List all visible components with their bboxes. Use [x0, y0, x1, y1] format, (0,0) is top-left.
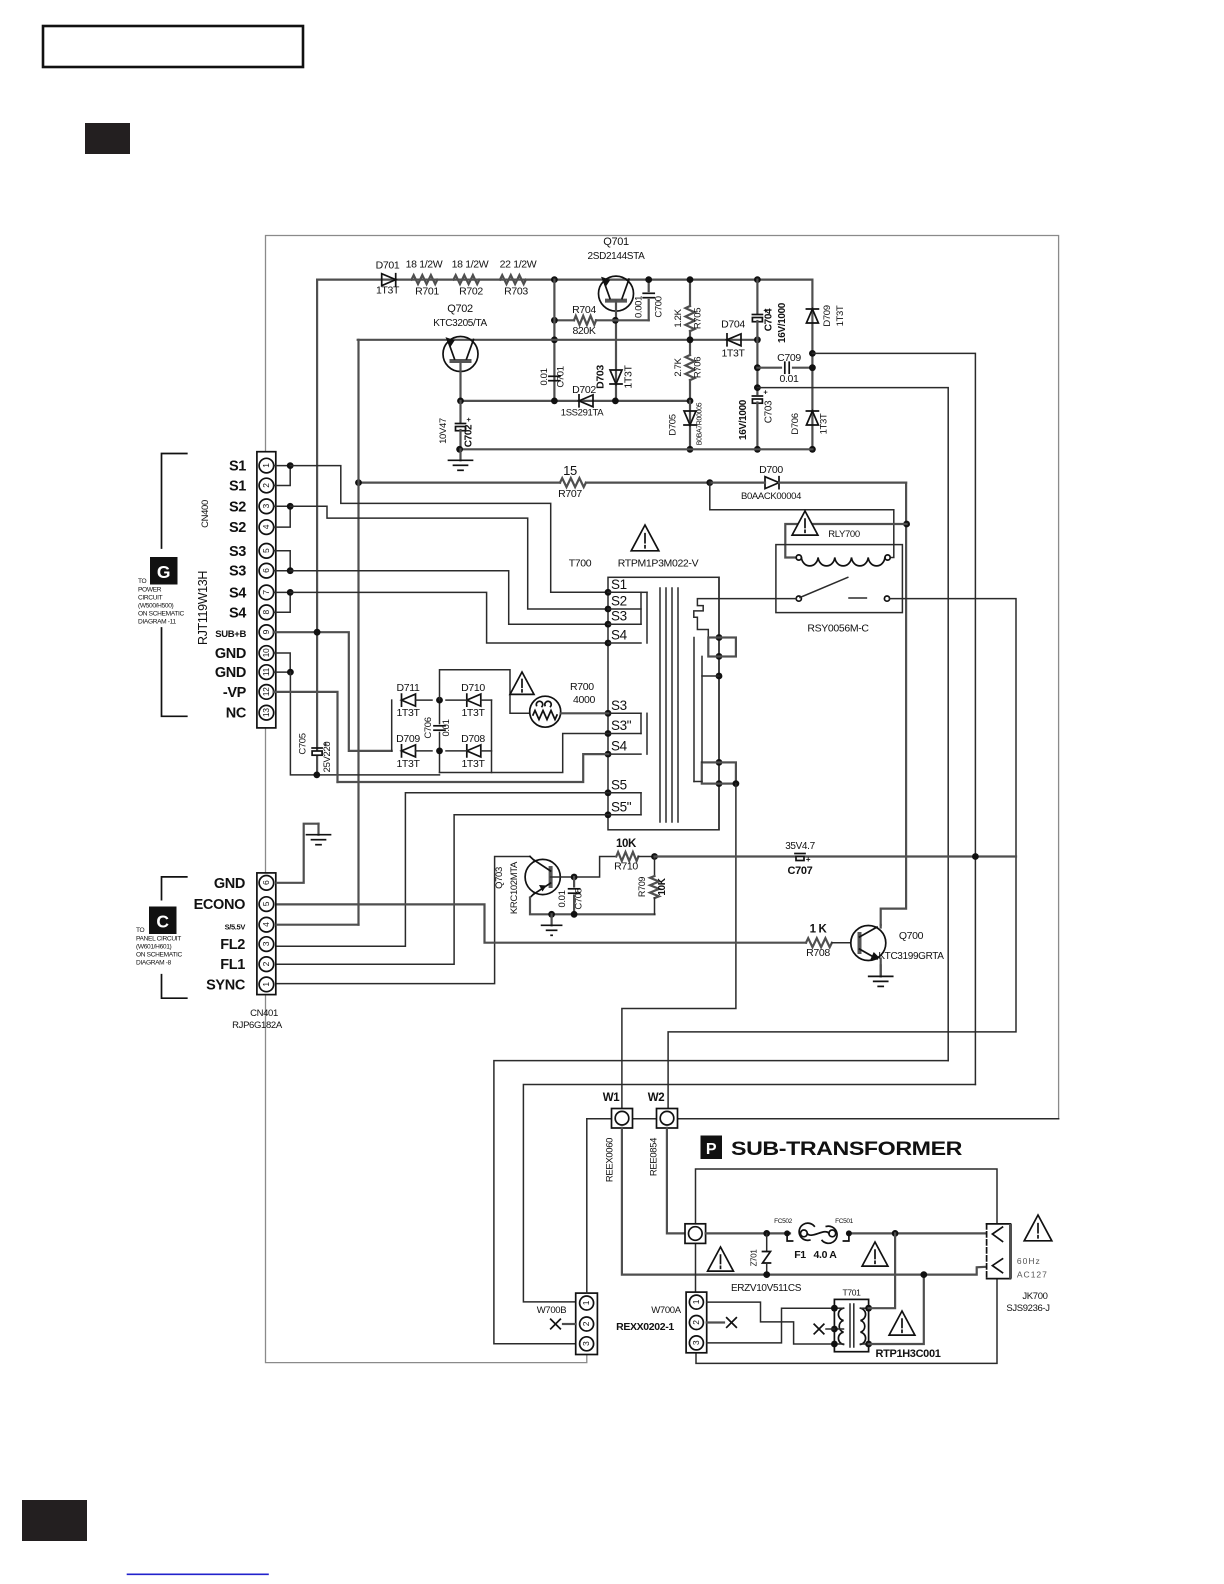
diode D709 bridge — [402, 745, 416, 757]
svg-text:RTP1H3C001: RTP1H3C001 — [876, 1348, 941, 1360]
svg-text:1T3T: 1T3T — [376, 285, 400, 297]
svg-text:REXX0202-1: REXX0202-1 — [616, 1321, 674, 1333]
CN400 pin 3 S2 — [259, 499, 274, 514]
ground symbol main — [459, 449, 461, 460]
CN401 pin 1 SYNC — [259, 977, 274, 992]
svg-text:D705: D705 — [668, 414, 679, 435]
T700 secondary inner lines — [693, 638, 695, 782]
wire Q703 collector to SYNC — [277, 857, 531, 984]
svg-text:S3: S3 — [229, 544, 246, 560]
svg-text:D710: D710 — [461, 682, 485, 694]
svg-text:9: 9 — [261, 629, 271, 634]
wire -VP pin 12 to S4 staircase — [274, 692, 338, 782]
CN401 pin 5 ECONO — [259, 897, 274, 912]
svg-text:W1: W1 — [603, 1092, 621, 1104]
wire S55V pin4 — [277, 924, 359, 926]
svg-text:R701: R701 — [415, 286, 439, 298]
svg-text:D709: D709 — [396, 733, 420, 745]
resistor R708 — [806, 938, 832, 947]
svg-text:RJP6G182A: RJP6G182A — [232, 1020, 283, 1031]
capacitor C705 — [312, 747, 322, 749]
wire net S2 to T700 — [290, 506, 608, 609]
svg-text:KRC102MTA: KRC102MTA — [509, 861, 520, 914]
svg-text:S4: S4 — [229, 585, 246, 601]
wire net D709 to W700B pin1 — [523, 1085, 975, 1302]
G section bracket — [162, 454, 187, 549]
svg-text:REEX0060: REEX0060 — [605, 1138, 616, 1182]
svg-text:SYNC: SYNC — [206, 977, 246, 993]
wire R700 to S3 tap — [561, 712, 608, 714]
wire T701 right bottom to AC line — [869, 1275, 924, 1344]
svg-text:D703: D703 — [595, 365, 607, 389]
wire W700A pin3 to T701 — [707, 1308, 835, 1343]
svg-text:1T3T: 1T3T — [396, 758, 420, 770]
resistor R705 — [689, 280, 691, 306]
main border left lower segment — [266, 728, 587, 1363]
wire Q700 emitter — [880, 959, 882, 977]
svg-text:11: 11 — [261, 667, 271, 676]
svg-text:25V220: 25V220 — [322, 742, 333, 773]
svg-text:16V/1000: 16V/1000 — [738, 399, 749, 440]
svg-text:10V47: 10V47 — [438, 418, 449, 444]
wire secondary to W1 — [622, 784, 736, 1109]
svg-text:DIAGRAM -11: DIAGRAM -11 — [138, 619, 176, 626]
wire Q702 base vertical — [459, 361, 461, 401]
svg-text:GND: GND — [215, 646, 246, 662]
resistor R701 — [412, 275, 438, 284]
wire relay switch left to T700 secondary — [694, 599, 796, 638]
svg-text:R706: R706 — [693, 357, 704, 378]
svg-text:15: 15 — [563, 463, 577, 478]
svg-text:R702: R702 — [459, 286, 483, 298]
svg-text:T700: T700 — [569, 558, 592, 570]
svg-text:GND: GND — [214, 876, 245, 892]
transistor Q700 — [851, 926, 886, 961]
wire net S4 to T700 — [290, 592, 608, 643]
wire Q703 emitter down — [530, 898, 655, 915]
diode D702 — [579, 395, 593, 407]
warning triangle relay — [792, 511, 818, 535]
wire D700 to relay right vertical — [881, 483, 906, 925]
svg-text:FC501: FC501 — [835, 1218, 853, 1225]
wire S4 pins 7-8 bracket — [274, 592, 291, 612]
wire W1 down to AC line — [622, 1128, 993, 1275]
resistor R710 — [616, 852, 638, 861]
CN400 pin 10 GND — [259, 646, 274, 661]
svg-text:GND: GND — [215, 665, 246, 681]
svg-text:S4: S4 — [229, 605, 246, 621]
relay coil — [796, 555, 801, 560]
svg-text:C707: C707 — [788, 865, 813, 877]
black label P — [701, 1136, 723, 1160]
black label box top — [85, 123, 130, 154]
wire R707 line — [359, 482, 561, 484]
svg-text:4.0 A: 4.0 A — [814, 1249, 838, 1261]
svg-text:S3": S3" — [611, 718, 632, 733]
wire ECONO from CN401 — [277, 904, 807, 942]
resistor R706 — [689, 340, 691, 355]
wire S1 pins 1-2 bracket — [274, 466, 291, 486]
varistor Z701 — [766, 1233, 768, 1251]
CN401 pin 4 S/5.5V — [259, 917, 274, 932]
bridge left edge — [391, 700, 393, 751]
svg-text:TO: TO — [138, 578, 147, 585]
svg-text:C703: C703 — [764, 400, 775, 423]
svg-text:POWER: POWER — [138, 587, 162, 594]
svg-text:R704: R704 — [572, 304, 596, 316]
svg-text:DIAGRAM -8: DIAGRAM -8 — [136, 960, 172, 967]
CN400 pin 8 S4 — [259, 605, 274, 620]
svg-text:3: 3 — [261, 503, 271, 508]
svg-text:R708: R708 — [806, 947, 830, 959]
resistor R703 — [500, 275, 526, 284]
svg-text:6: 6 — [261, 880, 271, 885]
wire S4 tap2 staircase — [338, 754, 609, 782]
wire bridge top node to R700 — [440, 670, 530, 714]
svg-text:C702: C702 — [464, 424, 475, 447]
CN400 pin 5 S3 — [259, 544, 274, 559]
svg-text:1: 1 — [691, 1299, 701, 1304]
svg-text:ON SCHEMATIC: ON SCHEMATIC — [136, 952, 182, 959]
ground symbol CN401 — [317, 824, 319, 835]
terminal W2 — [657, 1109, 678, 1129]
svg-text:D704: D704 — [721, 319, 745, 331]
svg-text:18 1/2W: 18 1/2W — [452, 259, 489, 271]
wire D702 rail y401 — [461, 400, 691, 402]
svg-text:T701: T701 — [843, 1288, 862, 1298]
wire net S3 to T700 — [290, 571, 608, 625]
svg-text:10: 10 — [261, 648, 271, 657]
svg-text:FL1: FL1 — [220, 957, 245, 973]
wire S5quote to FL1 — [277, 815, 609, 964]
svg-text:TO: TO — [136, 927, 145, 934]
thermistor R700 — [530, 696, 561, 727]
terminal W1 — [612, 1109, 633, 1129]
svg-text:Q703: Q703 — [494, 867, 505, 889]
main circuit border — [266, 236, 1059, 1119]
svg-text:ON SCHEMATIC: ON SCHEMATIC — [138, 611, 184, 618]
svg-text:0.01: 0.01 — [557, 890, 568, 907]
wire SUB+B vertical feed to D701 — [316, 280, 318, 775]
wire W line y1119 — [587, 1118, 1059, 1120]
diode D705 — [689, 401, 691, 449]
black label G — [150, 557, 178, 585]
capacitor C703 — [756, 340, 758, 394]
T700 secondary winding box lower — [702, 762, 736, 783]
transistor Q701 — [599, 276, 634, 311]
svg-text:0.01: 0.01 — [441, 719, 452, 736]
svg-text:3: 3 — [691, 1340, 701, 1345]
warning triangle sub2 — [862, 1242, 888, 1266]
svg-text:R710: R710 — [614, 861, 638, 873]
svg-text:S1: S1 — [229, 479, 246, 495]
wire Q702 collector rail y340 — [358, 339, 758, 341]
diode D708 — [467, 745, 481, 757]
warning triangle JK700 — [1024, 1215, 1052, 1241]
svg-text:F1: F1 — [794, 1249, 806, 1261]
CN400 pin 1 S1 — [259, 458, 274, 473]
svg-text:FC502: FC502 — [774, 1218, 792, 1225]
wire relay coil left feed — [785, 524, 906, 558]
svg-text:35V4.7: 35V4.7 — [785, 841, 815, 852]
svg-text:C: C — [156, 912, 169, 932]
svg-text:0.01: 0.01 — [539, 368, 550, 385]
wire R707 node to relay coil right — [710, 483, 894, 558]
svg-text:Q702: Q702 — [447, 303, 473, 315]
svg-text:SUB-TRANSFORMER: SUB-TRANSFORMER — [731, 1138, 962, 1160]
svg-text:1: 1 — [261, 982, 271, 987]
svg-text:R700: R700 — [570, 681, 594, 693]
warning triangle sub1 — [708, 1247, 734, 1271]
svg-text:KTC3199GRTA: KTC3199GRTA — [878, 951, 944, 962]
T700 primary taps upper — [605, 589, 612, 596]
wire GND pins 10-11 bracket — [274, 653, 291, 672]
svg-text:S1: S1 — [229, 459, 246, 475]
capacitor C704 — [756, 280, 758, 313]
svg-text:KTC3205/TA: KTC3205/TA — [433, 318, 487, 329]
svg-text:D706: D706 — [790, 413, 801, 434]
svg-text:JK700: JK700 — [1022, 1291, 1047, 1302]
wire C703 node to right bus — [757, 388, 948, 1061]
svg-text:(W601/H601): (W601/H601) — [136, 944, 172, 951]
svg-text:820K: 820K — [572, 325, 595, 337]
CN400 pin 7 S4 — [259, 585, 274, 600]
svg-text:C708: C708 — [574, 888, 585, 909]
svg-text:60Hz: 60Hz — [1017, 1256, 1041, 1266]
svg-text:R703: R703 — [504, 286, 528, 298]
svg-text:RSY0056M-C: RSY0056M-C — [807, 623, 869, 635]
svg-text:RLY700: RLY700 — [828, 529, 860, 540]
svg-text:R709: R709 — [637, 877, 647, 897]
wire W700A pin1 to T701 — [707, 1302, 835, 1344]
CN400 pin 9 SUB+B — [259, 625, 274, 640]
svg-text:CN401: CN401 — [250, 1008, 278, 1019]
node C704 top rail — [754, 276, 761, 283]
svg-text:1T3T: 1T3T — [819, 413, 830, 434]
transformer T701 — [834, 1299, 868, 1351]
wire Q700 collector — [880, 925, 882, 928]
wire top rail D701-R703 — [317, 279, 812, 281]
diode D704 — [727, 334, 741, 346]
svg-text:D700: D700 — [759, 464, 783, 476]
svg-text:0.01: 0.01 — [779, 373, 799, 385]
resistor R704 — [554, 319, 574, 321]
T700 secondary bus — [718, 577, 720, 830]
svg-text:NC: NC — [226, 706, 247, 722]
svg-text:+: + — [806, 855, 811, 864]
svg-text:D708: D708 — [461, 733, 485, 745]
wire x554 vertical — [553, 280, 555, 401]
CN400 pin 6 S3 — [259, 563, 274, 578]
bridge right edge — [491, 700, 493, 772]
black label C — [149, 907, 177, 935]
svg-text:7: 7 — [261, 590, 271, 595]
svg-text:1: 1 — [261, 463, 271, 468]
wire bridge bottom to S3 tap2 — [440, 734, 609, 773]
svg-text:S2: S2 — [229, 499, 246, 515]
svg-text:W700B: W700B — [537, 1305, 566, 1316]
diode D703 — [610, 370, 622, 384]
wire GND pin6 to ground symbol — [277, 824, 319, 883]
svg-text:1 K: 1 K — [810, 924, 828, 936]
svg-text:RTPM1P3M022-V: RTPM1P3M022-V — [618, 558, 699, 570]
CN400 pin 2 S1 — [259, 478, 274, 493]
svg-text:8: 8 — [261, 609, 271, 614]
T700 primary taps middle — [605, 710, 612, 717]
svg-text:D702: D702 — [572, 384, 596, 396]
node Q702 rail — [551, 336, 558, 343]
svg-text:S4: S4 — [611, 628, 628, 643]
wire S5 to FL2 — [277, 793, 609, 947]
wire W700B top stub — [586, 1119, 588, 1293]
CN400 pin 4 S2 — [259, 520, 274, 535]
svg-text:C706: C706 — [423, 717, 434, 738]
wire T701 mid pin X stub — [826, 1328, 834, 1330]
svg-text:CIRCUIT: CIRCUIT — [138, 595, 163, 602]
capacitor C708 — [573, 877, 575, 887]
svg-text:R707: R707 — [558, 488, 582, 500]
wire D709 node to right bus — [812, 353, 975, 1084]
ground rail y449 — [460, 448, 813, 450]
diode D700 — [765, 477, 779, 489]
capacitor C701 — [549, 375, 560, 377]
svg-text:S5: S5 — [611, 777, 627, 792]
CN401 pin 2 FL1 — [259, 957, 274, 972]
wire fuse line — [706, 1232, 790, 1234]
svg-text:RJT119W13H: RJT119W13H — [196, 571, 210, 645]
svg-text:P: P — [706, 1141, 717, 1158]
wire net S1 to T700 — [290, 466, 608, 593]
wire S3 pins 5-6 bracket — [274, 551, 291, 571]
svg-text:1: 1 — [581, 1300, 591, 1305]
svg-text:18 1/2W: 18 1/2W — [406, 259, 443, 271]
svg-text:0.001: 0.001 — [634, 296, 645, 318]
capacitor C700 — [648, 280, 650, 291]
svg-text:C705: C705 — [298, 733, 309, 754]
svg-text:SJS9236-J: SJS9236-J — [1006, 1303, 1050, 1314]
svg-text:3: 3 — [261, 941, 271, 946]
diode D709 — [806, 309, 818, 323]
svg-text:5: 5 — [261, 548, 271, 553]
svg-text:22 1/2W: 22 1/2W — [500, 259, 537, 271]
svg-text:2.7K: 2.7K — [673, 357, 684, 376]
footer blue rule — [127, 1573, 269, 1575]
svg-text:-VP: -VP — [223, 685, 247, 701]
transformer T700 box — [608, 577, 719, 830]
connector W700A — [686, 1292, 707, 1353]
CN400 pin 13 NC — [259, 705, 274, 720]
wire right branch x812 — [811, 280, 813, 450]
svg-text:R705: R705 — [693, 308, 704, 329]
svg-text:1T3T: 1T3T — [461, 758, 485, 770]
transistor Q702 — [443, 337, 478, 372]
svg-text:2: 2 — [261, 483, 271, 488]
svg-text:2SD2144STA: 2SD2144STA — [588, 251, 646, 262]
svg-text:B0BA7R00005: B0BA7R00005 — [697, 402, 704, 445]
resistor R707 — [560, 478, 586, 487]
jack JK700 — [987, 1224, 1011, 1279]
diode D710 — [467, 694, 481, 706]
svg-text:1T3T: 1T3T — [623, 365, 635, 389]
relay RLY700 box — [776, 545, 903, 613]
CN400 pin 11 GND — [259, 665, 274, 680]
sub-transformer box — [696, 1169, 998, 1224]
svg-text:ERZV10V511CS: ERZV10V511CS — [731, 1283, 802, 1294]
diode D701 — [382, 274, 396, 286]
svg-text:10K: 10K — [616, 838, 637, 850]
wire C707 line — [655, 855, 1017, 857]
svg-text:S3: S3 — [611, 609, 627, 624]
T700 primary taps lower — [605, 789, 612, 796]
connector CN401 box — [257, 873, 276, 995]
svg-text:S/5.5V: S/5.5V — [225, 923, 246, 932]
wire T701 right top to fuse line — [869, 1233, 896, 1308]
CN400 pin 12 -VP — [259, 685, 274, 700]
wire W700A pin2 stub with X — [707, 1321, 724, 1323]
svg-text:FL2: FL2 — [220, 937, 245, 953]
svg-text:2: 2 — [691, 1320, 701, 1325]
svg-text:S1: S1 — [611, 577, 627, 592]
svg-text:Q700: Q700 — [899, 930, 924, 942]
capacitor C702 — [459, 401, 461, 422]
svg-text:C701: C701 — [556, 366, 567, 387]
resistor R709 vertical — [654, 857, 656, 877]
resistor R702 — [454, 275, 480, 284]
terminal sub input — [685, 1224, 706, 1244]
svg-text:S2: S2 — [611, 594, 627, 609]
T700 core lines — [659, 588, 661, 822]
svg-text:Q701: Q701 — [603, 236, 629, 248]
svg-text:5: 5 — [261, 901, 271, 906]
svg-text:S4: S4 — [611, 739, 628, 754]
CN401 pin 6 GND — [259, 876, 274, 891]
ground Q700 — [880, 965, 882, 976]
svg-text:Z701: Z701 — [750, 1249, 759, 1267]
connector CN400 box — [257, 452, 276, 728]
warning triangle T701 — [889, 1311, 915, 1335]
svg-text:1T3T: 1T3T — [396, 707, 420, 719]
svg-text:1T3T: 1T3T — [461, 707, 485, 719]
svg-text:1SS291TA: 1SS291TA — [561, 408, 604, 419]
svg-text:2: 2 — [581, 1321, 591, 1326]
svg-text:CN400: CN400 — [200, 500, 211, 528]
svg-text:ECONO: ECONO — [194, 897, 245, 913]
svg-text:S2: S2 — [229, 520, 246, 536]
wire x358 long vertical — [357, 340, 359, 925]
svg-text:13: 13 — [261, 708, 271, 717]
wire Q703 base node — [551, 857, 617, 878]
svg-text:12: 12 — [261, 687, 271, 696]
svg-text:C700: C700 — [654, 296, 665, 317]
capacitor C706 — [439, 700, 441, 724]
svg-text:S5": S5" — [611, 799, 632, 814]
svg-text:W700A: W700A — [651, 1305, 681, 1316]
transistor Q703 — [525, 859, 560, 894]
T700 secondary winding box upper — [708, 638, 736, 657]
C section bracket — [162, 877, 187, 900]
svg-text:1T3T: 1T3T — [721, 348, 745, 360]
wire net C703 to W700B pin3 — [494, 1061, 948, 1344]
wire relay switch right to W2 — [668, 599, 1016, 1109]
svg-text:AC127: AC127 — [1017, 1270, 1048, 1280]
warning triangle R700 — [510, 672, 534, 694]
diode D706 — [806, 411, 818, 425]
black label box bottom — [22, 1500, 87, 1541]
ground Q703 — [548, 911, 555, 918]
svg-text:10K: 10K — [657, 877, 668, 895]
node top rail at x554 — [551, 276, 558, 283]
svg-text:B0AACK00004: B0AACK00004 — [741, 491, 801, 502]
